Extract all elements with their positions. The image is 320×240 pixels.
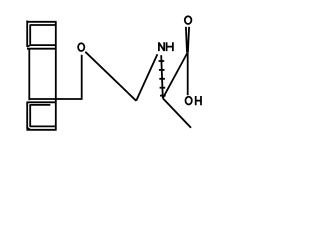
bond CH2 up to ether O <box>81 55 83 100</box>
ring left outer edge (top square) <box>26 21 28 47</box>
ring mid lower horizontal <box>27 48 56 50</box>
hash tick 4 <box>160 87 166 89</box>
bond stereocenter up-right to carboxyl carbon <box>163 53 188 98</box>
ring mid upper horizontal <box>30 44 56 46</box>
bond stereocenter down-right to methyl <box>163 98 191 128</box>
atom label O (ether) <box>78 43 84 51</box>
bond carboxyl carbon down to OH <box>187 53 189 96</box>
hash tick 2 <box>159 69 165 71</box>
ring left edge (middle rectangle) <box>28 48 30 100</box>
ring left inner double-bond line (bottom square) <box>29 104 31 127</box>
ring left outer edge (bottom square) <box>26 102 28 129</box>
C=O double bond right line <box>188 27 189 53</box>
ring bottom-square inner top double-bond line <box>30 104 50 106</box>
ring top edge <box>27 21 57 23</box>
wire ring to CH2 long horizontal <box>29 98 82 100</box>
ring left inner double-bond line (top square) <box>29 25 31 45</box>
ring bottom inner double-bond line <box>30 125 56 127</box>
ring top inner double-bond line <box>30 24 56 26</box>
ring bottom-square top edge <box>27 101 56 103</box>
ring bottom edge <box>27 129 57 131</box>
atom label N of NH (amine) <box>159 42 164 51</box>
hashed stereo bond NH to stereocenter: center line <box>161 55 163 98</box>
ring right edge (full height) <box>55 21 57 130</box>
bond CH2 up-right to NH <box>136 54 157 101</box>
atom label O of OH (hydroxyl) <box>186 97 192 105</box>
C=O double bond left line <box>186 27 187 53</box>
hash tick 5 <box>160 95 166 97</box>
atom label H of OH (hydroxyl) <box>196 96 201 105</box>
ring corner notch bottom-left corner <box>28 128 31 130</box>
hash tick 1 <box>159 60 165 62</box>
atom label H of NH (amine) <box>167 42 173 51</box>
hash tick 3 <box>159 78 165 80</box>
bond ether O down-right to CH2 <box>85 52 136 101</box>
atom label O (carbonyl) <box>185 16 192 24</box>
ring corner notch top-left junction <box>27 45 30 47</box>
